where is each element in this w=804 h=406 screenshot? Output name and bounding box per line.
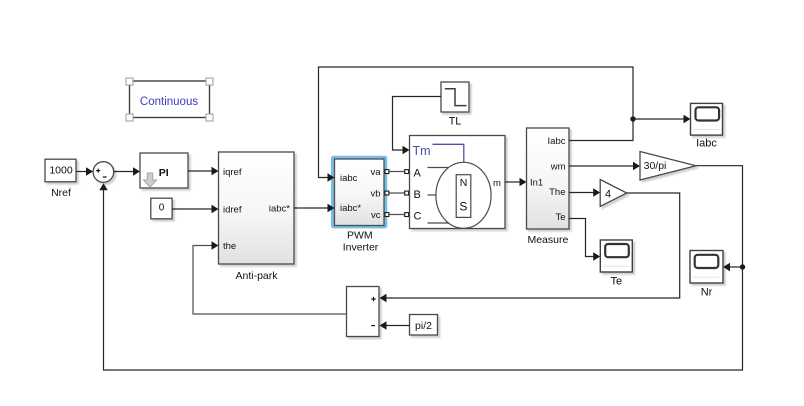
wire 1000 to sum bbox=[77, 167, 94, 175]
svg-text:vb: vb bbox=[370, 189, 380, 200]
wire sum2 to the bbox=[193, 241, 347, 314]
subsystem Measure bbox=[527, 128, 570, 246]
svg-text:B: B bbox=[414, 189, 421, 201]
junction Iabc node bbox=[630, 116, 635, 121]
svg-text:Iabc: Iabc bbox=[548, 136, 566, 147]
scope Nr (flipped) bbox=[690, 251, 723, 299]
wire TL to Tm bbox=[393, 97, 442, 155]
physical wire vc to C bbox=[385, 213, 409, 217]
svg-text:Te: Te bbox=[610, 276, 622, 288]
svg-text:30/pi: 30/pi bbox=[644, 160, 667, 172]
wire gain 30/pi to feedback loop bbox=[99, 166, 742, 370]
svg-text:A: A bbox=[414, 167, 422, 179]
svg-text:4: 4 bbox=[605, 189, 611, 201]
svg-text:N: N bbox=[460, 177, 468, 189]
svg-text:1000: 1000 bbox=[49, 165, 73, 177]
junction Nr node bbox=[740, 264, 745, 269]
svg-text:Te: Te bbox=[555, 212, 565, 223]
wire gain 4 to sum2 plus bbox=[380, 193, 680, 302]
gain 4 bbox=[600, 180, 627, 207]
svg-text:iabc: iabc bbox=[340, 173, 358, 184]
svg-text:Inverter: Inverter bbox=[343, 241, 379, 253]
svg-text:PWM: PWM bbox=[347, 229, 373, 241]
wire pi/2 to sum2 minus bbox=[380, 321, 410, 329]
sum2 theta offset (flipped) bbox=[347, 287, 380, 337]
annotation Continuous bbox=[126, 78, 213, 121]
constant Nref (1000) bbox=[45, 159, 76, 199]
machine PMSM block bbox=[410, 136, 506, 229]
scope Iabc bbox=[691, 103, 723, 149]
svg-text:The: The bbox=[549, 187, 565, 198]
svg-text:Nr: Nr bbox=[701, 287, 713, 299]
svg-text:Anti-park: Anti-park bbox=[235, 270, 278, 282]
svg-text:C: C bbox=[414, 210, 422, 222]
wire junction to Nr scope bbox=[723, 263, 743, 271]
wire 0 to idref bbox=[172, 205, 219, 213]
physical wire vb to B bbox=[385, 191, 409, 195]
svg-text:In1: In1 bbox=[530, 178, 543, 189]
svg-text:0: 0 bbox=[159, 202, 165, 213]
wire sum to PI bbox=[114, 167, 140, 175]
svg-text:S: S bbox=[459, 200, 467, 214]
svg-text:the: the bbox=[223, 241, 236, 252]
svg-text:iabc*: iabc* bbox=[340, 203, 361, 214]
svg-text:wm: wm bbox=[550, 162, 566, 173]
wire Te to Te scope bbox=[569, 219, 600, 261]
source TL (step) bbox=[441, 82, 469, 128]
subsystem PWM Inverter (selected) bbox=[331, 156, 387, 254]
wire The to gain 4 bbox=[569, 188, 600, 196]
scope Te bbox=[600, 240, 632, 288]
svg-text:pi/2: pi/2 bbox=[415, 320, 432, 332]
svg-text:m: m bbox=[493, 178, 501, 189]
svg-text:PI: PI bbox=[159, 167, 169, 179]
constant 0 bbox=[151, 198, 172, 219]
constant pi/2 bbox=[410, 315, 438, 336]
svg-text:vc: vc bbox=[371, 210, 381, 221]
svg-text:iabc*: iabc* bbox=[269, 204, 290, 215]
wire Iabc feedback (Measure to PWM iabc) bbox=[319, 67, 634, 182]
wire machine m to Measure In1 bbox=[505, 178, 527, 186]
controller PI bbox=[140, 153, 188, 188]
wire wm to gain 30/pi bbox=[569, 162, 640, 170]
svg-text:iqref: iqref bbox=[223, 167, 242, 178]
subsystem Anti-park bbox=[219, 152, 295, 282]
svg-text:Continuous: Continuous bbox=[140, 96, 198, 108]
svg-text:va: va bbox=[370, 167, 381, 178]
gain 30/pi bbox=[640, 152, 696, 181]
svg-text:Measure: Measure bbox=[527, 234, 568, 246]
svg-text:idref: idref bbox=[223, 205, 242, 216]
svg-text:TL: TL bbox=[449, 116, 462, 128]
sum junction (speed error) bbox=[93, 162, 114, 183]
wire PI to iqref bbox=[188, 167, 219, 175]
physical wire va to A bbox=[385, 170, 409, 174]
svg-text:Iabc: Iabc bbox=[696, 138, 717, 150]
svg-text:Tm: Tm bbox=[413, 144, 431, 158]
wire iabc* to PWM bbox=[294, 204, 335, 212]
wire junction to Iabc scope bbox=[633, 115, 691, 123]
svg-text:Nref: Nref bbox=[51, 187, 71, 199]
